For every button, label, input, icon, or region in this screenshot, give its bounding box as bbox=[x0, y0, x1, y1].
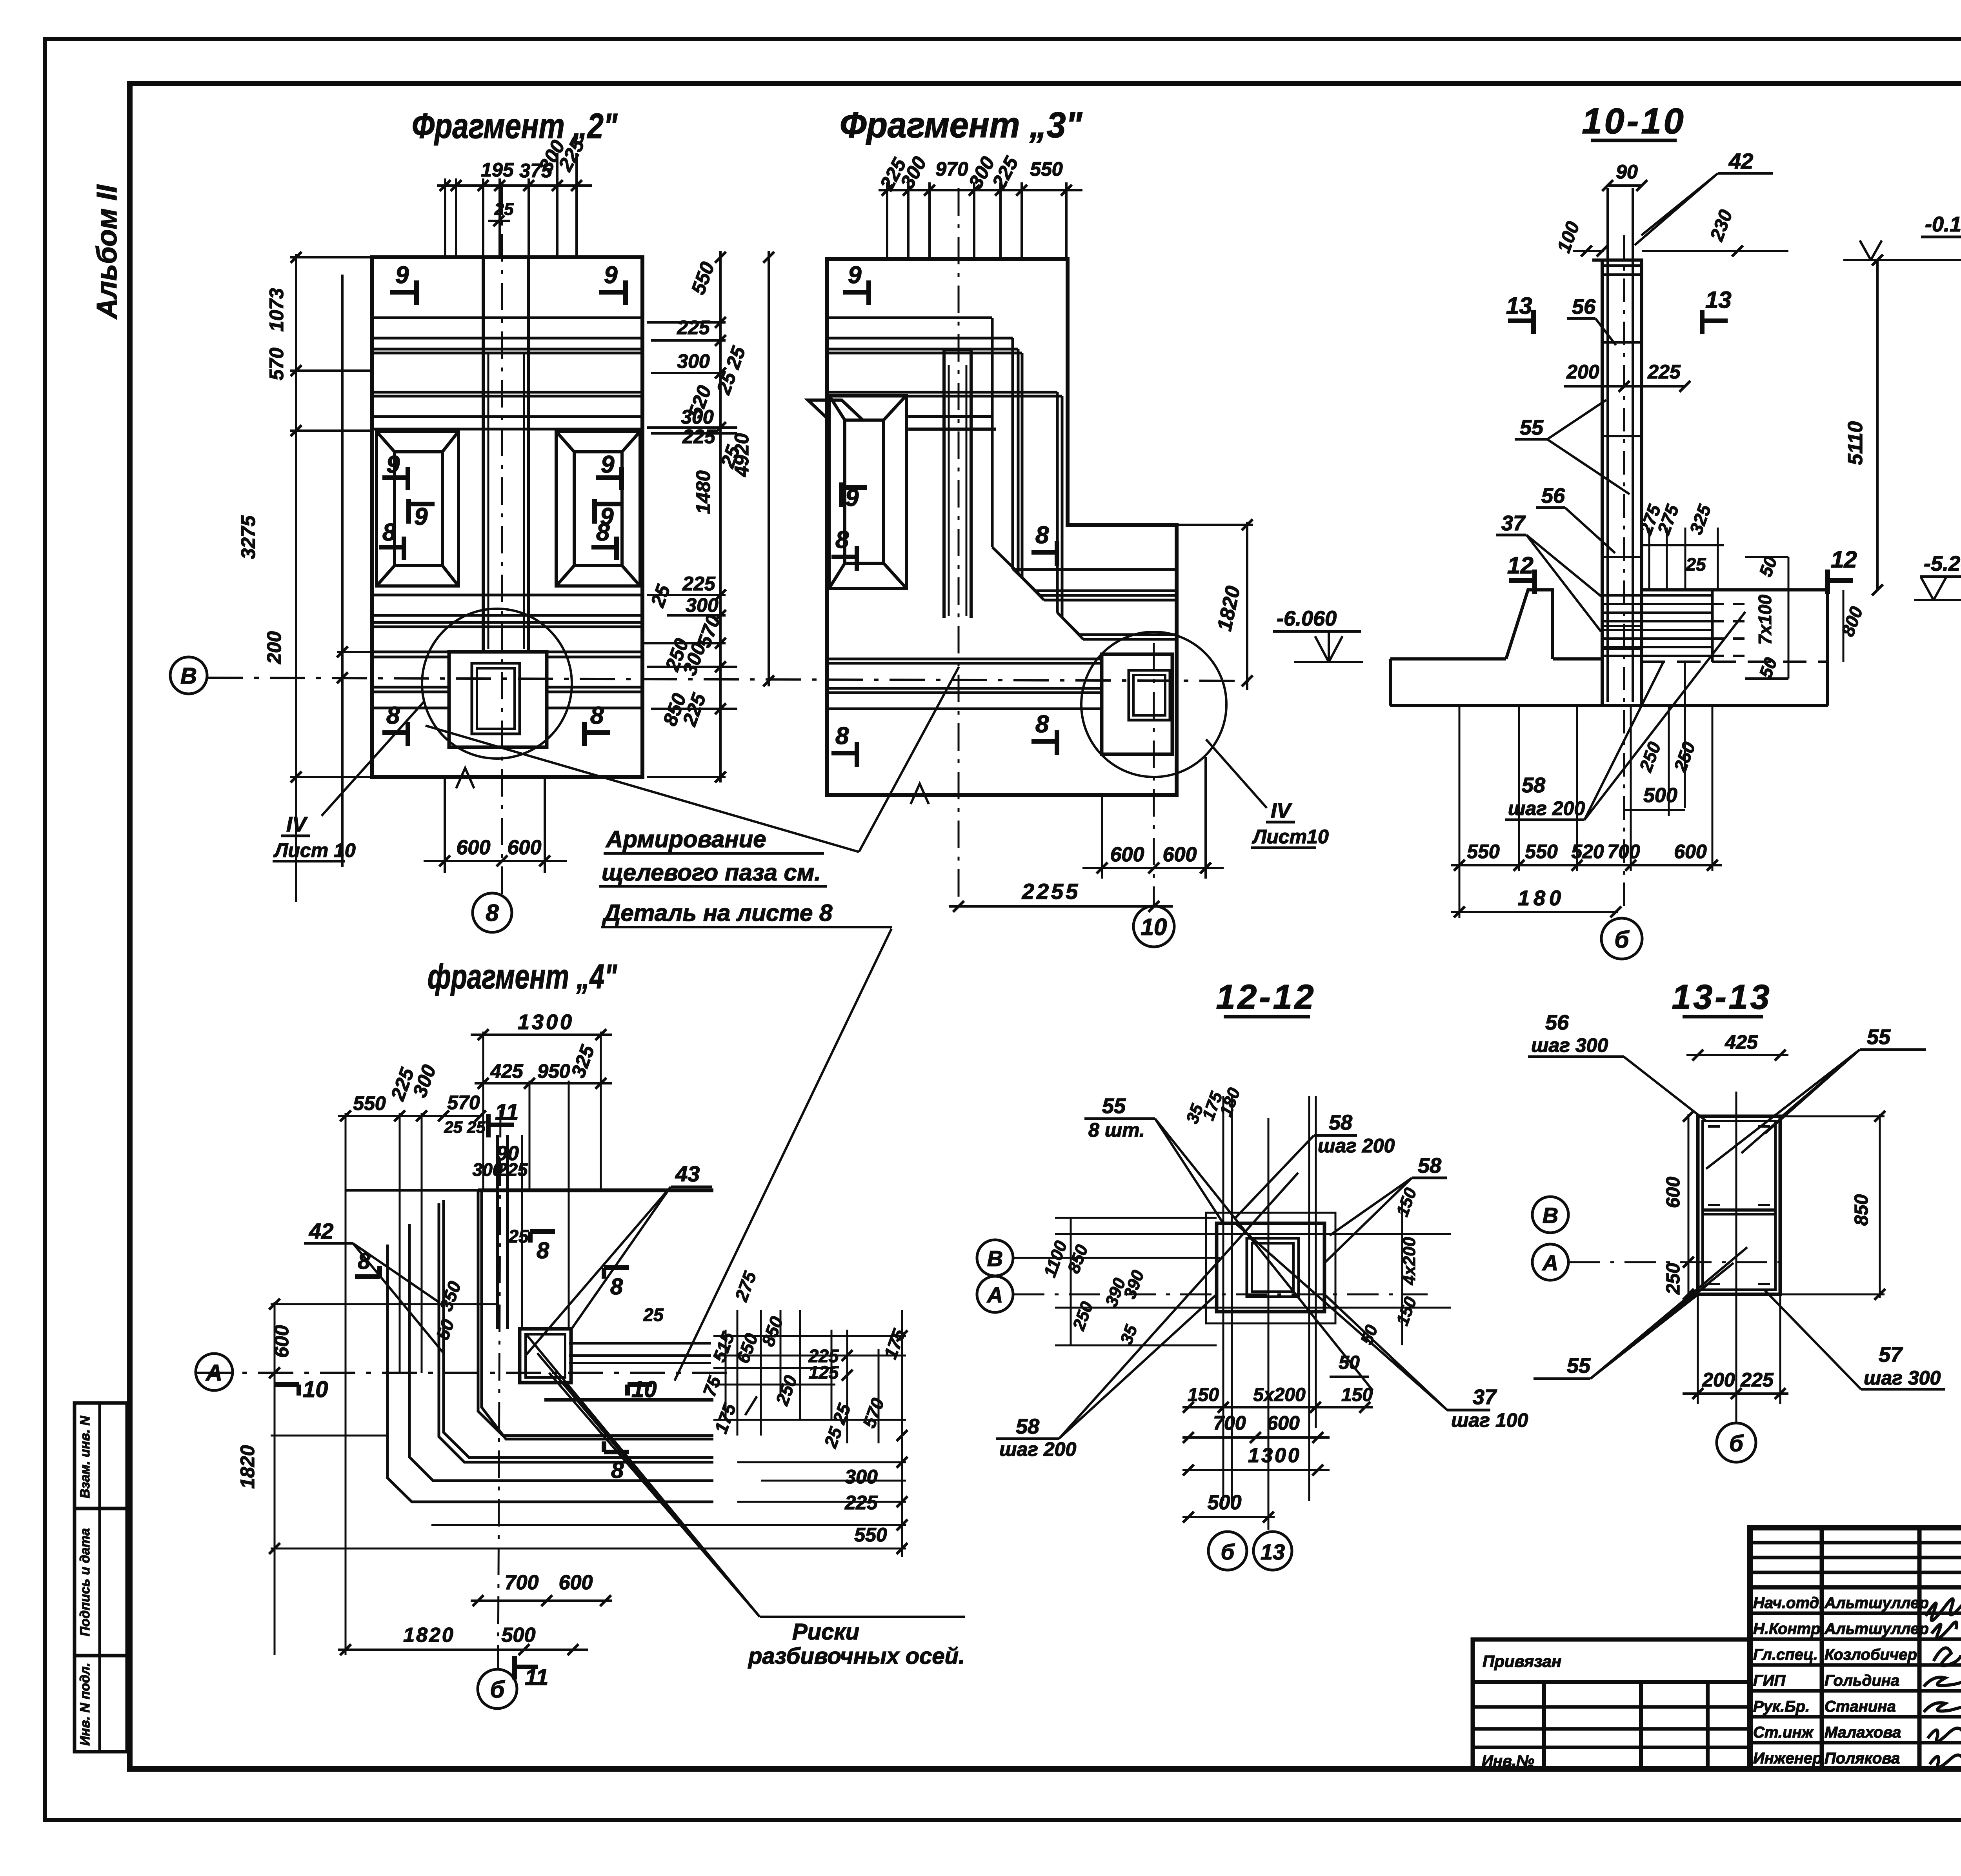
svg-text:12: 12 bbox=[1507, 552, 1534, 579]
top dim 425 950 325 bbox=[490, 1042, 599, 1082]
svg-text:225: 225 bbox=[1740, 1369, 1774, 1391]
svg-text:42: 42 bbox=[1728, 149, 1753, 173]
FRAG4 bbox=[196, 957, 965, 1709]
svg-text:б: б bbox=[490, 1676, 505, 1703]
dimension 2255 bbox=[949, 901, 1173, 912]
bottom 600x600 dimension frag3 bbox=[1082, 757, 1224, 879]
markers 8 bbox=[355, 1232, 629, 1452]
crossing witness horizontals bbox=[1055, 1218, 1451, 1345]
svg-text:шаг 300: шаг 300 bbox=[1864, 1367, 1941, 1389]
svg-text:550: 550 bbox=[1467, 841, 1500, 862]
bottom dim 700 600 bbox=[505, 1571, 593, 1594]
svg-text:шаг 200: шаг 200 bbox=[999, 1438, 1076, 1460]
svg-text:600: 600 bbox=[1267, 1412, 1300, 1434]
svg-text:б: б bbox=[1614, 926, 1630, 953]
svg-text:В: В bbox=[1543, 1203, 1558, 1228]
svg-text:-6.060: -6.060 bbox=[1277, 607, 1337, 630]
riski razbivochnyh osej text bbox=[748, 1619, 965, 1669]
svg-text:12-12: 12-12 bbox=[1216, 977, 1316, 1016]
witness verticals top bbox=[346, 1032, 601, 1655]
wall verticals bbox=[1602, 260, 1642, 706]
svg-text:600: 600 bbox=[508, 836, 542, 859]
svg-text:8: 8 bbox=[386, 702, 400, 729]
svg-text:90: 90 bbox=[1616, 161, 1638, 183]
fragment 4 main outline bbox=[346, 1189, 713, 1192]
svg-text:500: 500 bbox=[1643, 784, 1677, 807]
svg-text:Деталь на листе 8: Деталь на листе 8 bbox=[602, 900, 833, 926]
fragment 2 top dimension chain bbox=[437, 153, 592, 259]
svg-text:10: 10 bbox=[631, 1377, 657, 1402]
detail circle at slot bottom bbox=[422, 609, 572, 759]
SEC1212 bbox=[977, 977, 1528, 1570]
svg-text:37: 37 bbox=[1473, 1385, 1497, 1409]
svg-text:3275: 3275 bbox=[237, 515, 259, 559]
bottom dim chain bbox=[1451, 864, 1722, 866]
svg-text:А: А bbox=[986, 1283, 1003, 1307]
svg-text:разбивочных осей.: разбивочных осей. bbox=[748, 1643, 965, 1669]
fragment 3 L outline bbox=[827, 259, 1177, 795]
right dimension 1820 bbox=[1179, 519, 1253, 690]
svg-text:600: 600 bbox=[1663, 1177, 1684, 1208]
svg-text:Альтшуллер: Альтшуллер bbox=[1824, 1594, 1929, 1612]
signature table columns bbox=[1820, 1528, 1824, 1769]
svg-text:б: б bbox=[1221, 1539, 1235, 1564]
svg-text:1073: 1073 bbox=[266, 288, 287, 331]
svg-text:13: 13 bbox=[1506, 293, 1532, 319]
svg-text:9: 9 bbox=[848, 262, 862, 289]
svg-text:Козлобичер: Козлобичер bbox=[1825, 1646, 1917, 1663]
svg-text:IV: IV bbox=[286, 813, 308, 836]
left recessed box bbox=[377, 431, 458, 586]
svg-text:250: 250 bbox=[1663, 1263, 1684, 1295]
footing witness lines below bbox=[1459, 663, 1712, 918]
FRAG3 bbox=[426, 105, 1363, 1381]
svg-text:Н.Контр.: Н.Контр. bbox=[1753, 1620, 1825, 1638]
markers 13 bbox=[1508, 310, 1728, 334]
TITLEBLOCK bbox=[1473, 1528, 1961, 1853]
svg-text:58: 58 bbox=[1329, 1111, 1352, 1134]
section markers fragment 3 bbox=[831, 280, 1057, 767]
svg-text:10-10: 10-10 bbox=[1582, 101, 1686, 141]
markers 10 bbox=[275, 1385, 652, 1396]
right recessed box bbox=[556, 431, 640, 586]
svg-text:Малахова: Малахова bbox=[1825, 1724, 1901, 1741]
name rows bbox=[1750, 1612, 1961, 1615]
slab step lines top bbox=[372, 318, 642, 429]
svg-text:180: 180 bbox=[1518, 886, 1565, 910]
axis circle 10 bbox=[1133, 906, 1174, 947]
svg-text:Гольдина: Гольдина bbox=[1825, 1672, 1899, 1689]
svg-text:Подпись и дата: Подпись и дата bbox=[78, 1528, 93, 1636]
bottom 600x600 dimension bbox=[424, 779, 567, 873]
svg-text:58: 58 bbox=[1016, 1415, 1039, 1438]
svg-text:425: 425 bbox=[490, 1060, 524, 1082]
svg-text:10: 10 bbox=[1141, 914, 1167, 940]
axis circle B bbox=[170, 657, 207, 694]
svg-text:37: 37 bbox=[1501, 511, 1526, 535]
svg-text:55: 55 bbox=[1102, 1094, 1126, 1118]
SEC1111 bbox=[1843, 101, 1961, 953]
axis circle b bbox=[1717, 1423, 1756, 1462]
svg-text:225: 225 bbox=[682, 426, 716, 448]
dim 200 225 bbox=[1566, 361, 1681, 383]
svg-text:225: 225 bbox=[682, 573, 716, 595]
left dims bbox=[1663, 1177, 1684, 1295]
svg-text:500: 500 bbox=[1208, 1491, 1242, 1514]
nested step contours bbox=[387, 1190, 713, 1502]
svg-text:550: 550 bbox=[854, 1524, 887, 1546]
svg-text:8: 8 bbox=[382, 519, 396, 546]
slab step lines bottom bbox=[372, 595, 642, 708]
svg-text:9: 9 bbox=[604, 262, 618, 289]
signatures squiggles bbox=[1924, 1599, 1961, 1767]
dims 275 275 325 rotated bbox=[1635, 501, 1715, 537]
axis circles B A bbox=[977, 1240, 1013, 1276]
leader IV list10 frag3 bbox=[1206, 739, 1267, 808]
svg-text:1300: 1300 bbox=[518, 1010, 574, 1034]
svg-text:225: 225 bbox=[497, 1159, 528, 1180]
svg-text:550: 550 bbox=[1030, 158, 1063, 180]
leader IV list 10 bbox=[322, 702, 424, 816]
thin top rows bbox=[1750, 1541, 1961, 1545]
svg-text:б: б bbox=[1729, 1431, 1744, 1456]
svg-text:25 25: 25 25 bbox=[444, 1118, 486, 1136]
svg-text:9: 9 bbox=[601, 451, 615, 478]
fragment 2 plan outline bbox=[372, 257, 642, 777]
svg-text:Лист 10: Лист 10 bbox=[273, 839, 356, 861]
left slab step lines bbox=[827, 318, 1177, 639]
svg-text:Альтшуллер: Альтшуллер bbox=[1824, 1620, 1929, 1638]
svg-text:Фрагмент „3": Фрагмент „3" bbox=[840, 105, 1082, 145]
svg-text:8: 8 bbox=[1035, 711, 1049, 738]
central slot bbox=[482, 257, 485, 651]
crossing witness verticals bbox=[1223, 1096, 1316, 1530]
svg-text:8: 8 bbox=[835, 722, 849, 750]
svg-text:600: 600 bbox=[1163, 843, 1197, 866]
svg-text:13-13: 13-13 bbox=[1672, 977, 1772, 1016]
column section rect bbox=[1698, 1116, 1780, 1294]
svg-text:42: 42 bbox=[309, 1219, 333, 1243]
svg-text:Риски: Риски bbox=[792, 1619, 859, 1645]
left top dims 550 225 300 570 bbox=[353, 1062, 480, 1114]
dim 700 600 bbox=[1213, 1412, 1300, 1434]
left stamp strip bbox=[75, 1403, 127, 1752]
svg-text:57: 57 bbox=[1879, 1343, 1903, 1367]
recessed box fragment 3 bbox=[808, 395, 996, 588]
svg-text:550: 550 bbox=[353, 1092, 386, 1114]
svg-text:195: 195 bbox=[481, 159, 514, 181]
svg-text:шаг 200: шаг 200 bbox=[1318, 1135, 1395, 1157]
marker 11 bottom bbox=[515, 1656, 538, 1679]
svg-text:300: 300 bbox=[686, 594, 719, 616]
fragment 2 right dimension chain bbox=[643, 251, 774, 782]
svg-text:55: 55 bbox=[1867, 1025, 1891, 1049]
svg-text:425: 425 bbox=[1725, 1031, 1758, 1053]
stirrups in wall bbox=[1603, 266, 1641, 649]
axis A line bbox=[196, 1372, 737, 1374]
labels 35 175 180 rotated bbox=[1182, 1085, 1244, 1126]
marker 11 top bbox=[488, 1114, 514, 1137]
svg-text:13: 13 bbox=[1261, 1539, 1285, 1564]
svg-text:11: 11 bbox=[525, 1665, 548, 1690]
svg-text:700: 700 bbox=[505, 1571, 539, 1594]
svg-text:570: 570 bbox=[266, 348, 287, 380]
FRAG2 bbox=[170, 107, 1249, 932]
svg-text:Рук.Бр.: Рук.Бр. bbox=[1753, 1698, 1810, 1715]
svg-text:300: 300 bbox=[681, 406, 714, 428]
svg-text:IV: IV bbox=[1271, 799, 1292, 822]
main stamp box bbox=[1750, 1528, 1961, 1769]
svg-text:9: 9 bbox=[386, 451, 400, 478]
svg-text:8: 8 bbox=[611, 1457, 624, 1483]
fragment 2 left dimension chain bbox=[290, 252, 373, 902]
rebar hooks bbox=[1708, 1126, 1770, 1284]
svg-text:850: 850 bbox=[1851, 1194, 1872, 1226]
svg-text:5110: 5110 bbox=[1844, 421, 1867, 465]
svg-text:500: 500 bbox=[502, 1624, 536, 1647]
svg-text:600: 600 bbox=[457, 836, 491, 859]
section markers in boxes bbox=[379, 467, 622, 560]
svg-text:55: 55 bbox=[1567, 1354, 1591, 1377]
small dims near slot bbox=[432, 1159, 529, 1342]
svg-text:9: 9 bbox=[845, 484, 859, 511]
axis B line bbox=[208, 678, 1249, 681]
svg-text:1300: 1300 bbox=[1248, 1444, 1301, 1467]
svg-text:10: 10 bbox=[303, 1377, 328, 1402]
svg-text:56: 56 bbox=[1572, 295, 1596, 318]
svg-text:520: 520 bbox=[1571, 841, 1604, 862]
svg-text:225: 225 bbox=[844, 1492, 878, 1514]
svg-text:12: 12 bbox=[1831, 546, 1857, 573]
svg-text:25: 25 bbox=[1685, 554, 1706, 575]
footing outline bbox=[1390, 590, 1828, 706]
svg-text:56: 56 bbox=[1541, 484, 1565, 508]
reinforcement note text bbox=[602, 826, 833, 926]
svg-text:25: 25 bbox=[494, 200, 514, 219]
svg-text:125: 125 bbox=[809, 1362, 839, 1383]
svg-text:Инв. N подл.: Инв. N подл. bbox=[78, 1663, 93, 1746]
svg-text:-0.150: -0.150 bbox=[1925, 213, 1961, 236]
svg-text:шаг 100: шаг 100 bbox=[1451, 1409, 1528, 1431]
hatch bars in footing bbox=[1602, 590, 1747, 662]
SEC1313 bbox=[1528, 977, 1945, 1462]
center square detail bbox=[520, 1329, 571, 1383]
svg-text:970: 970 bbox=[935, 158, 968, 180]
svg-text:5x200: 5x200 bbox=[1253, 1385, 1306, 1405]
svg-text:200: 200 bbox=[263, 631, 285, 664]
svg-text:шаг 300: шаг 300 bbox=[1531, 1034, 1608, 1056]
svg-text:фрагмент „4": фрагмент „4" bbox=[427, 957, 617, 996]
svg-text:В: В bbox=[180, 663, 197, 689]
axis circle 8 bottom bbox=[473, 893, 512, 932]
leader lines to slots bbox=[426, 726, 859, 852]
svg-text:8: 8 bbox=[590, 702, 604, 729]
svg-text:Привязан: Привязан bbox=[1483, 1652, 1561, 1670]
svg-text:225: 225 bbox=[1647, 361, 1681, 383]
bottom dim 200 225 bbox=[1702, 1369, 1774, 1391]
axis circles B A bbox=[1532, 1197, 1568, 1233]
section markers 8 bottom bbox=[382, 722, 610, 746]
svg-text:-5.260: -5.260 bbox=[1924, 552, 1961, 575]
svg-text:Инженер: Инженер bbox=[1753, 1750, 1822, 1767]
svg-text:600: 600 bbox=[1674, 841, 1707, 862]
svg-text:225: 225 bbox=[677, 317, 710, 338]
svg-text:43: 43 bbox=[675, 1161, 700, 1186]
svg-text:щелевого паза см.: щелевого паза см. bbox=[602, 859, 821, 886]
left chain bbox=[271, 1302, 906, 1655]
detail circle at arm end bbox=[1081, 632, 1226, 777]
svg-text:11: 11 bbox=[495, 1099, 518, 1125]
right witness lines bbox=[431, 1310, 906, 1557]
fan leaders to Riski bbox=[526, 1334, 965, 1617]
svg-text:300: 300 bbox=[845, 1466, 878, 1488]
svg-text:55: 55 bbox=[1520, 416, 1544, 439]
svg-text:Армирование: Армирование bbox=[605, 826, 766, 852]
svg-text:8: 8 bbox=[358, 1248, 371, 1274]
svg-text:8 шт.: 8 шт. bbox=[1088, 1119, 1145, 1141]
svg-text:600: 600 bbox=[1110, 843, 1144, 866]
svg-text:1480: 1480 bbox=[692, 470, 714, 514]
svg-text:600: 600 bbox=[559, 1571, 593, 1594]
privyazan table bbox=[1473, 1639, 1750, 1769]
left rotated dims bbox=[1040, 1238, 1148, 1347]
svg-text:8: 8 bbox=[486, 900, 499, 926]
break mark fragment 3 bbox=[911, 784, 929, 804]
svg-text:25: 25 bbox=[508, 1226, 529, 1246]
markers 12 bbox=[1509, 570, 1853, 594]
svg-text:8: 8 bbox=[610, 1274, 623, 1299]
svg-text:58: 58 bbox=[1418, 1154, 1441, 1177]
svg-text:700: 700 bbox=[1607, 841, 1640, 862]
svg-text:шаг 200: шаг 200 bbox=[1508, 797, 1585, 819]
section markers 9 top bbox=[390, 280, 626, 305]
svg-text:9: 9 bbox=[395, 262, 409, 289]
svg-text:200: 200 bbox=[1566, 361, 1599, 383]
dims 50 7x100 50 800 right bbox=[1755, 553, 1867, 681]
svg-text:А: А bbox=[1542, 1250, 1558, 1275]
svg-text:8: 8 bbox=[537, 1238, 549, 1263]
svg-text:Ст.инж: Ст.инж bbox=[1753, 1724, 1814, 1741]
svg-text:13: 13 bbox=[1705, 287, 1732, 313]
svg-text:700: 700 bbox=[1213, 1412, 1246, 1434]
svg-text:8: 8 bbox=[1035, 522, 1049, 549]
svg-text:А: А bbox=[205, 1360, 222, 1386]
svg-text:25: 25 bbox=[643, 1305, 664, 1325]
signature labels bbox=[1753, 1594, 1929, 1767]
svg-text:Гл.спец.: Гл.спец. bbox=[1753, 1646, 1818, 1663]
svg-text:Альбом II: Альбом II bbox=[91, 184, 123, 319]
svg-text:50: 50 bbox=[1339, 1352, 1360, 1373]
bottom dim 150 5x200 150 bbox=[1188, 1385, 1373, 1405]
svg-text:2255: 2255 bbox=[1022, 879, 1081, 904]
axis band lines bbox=[827, 659, 1102, 709]
axis circle b bbox=[1601, 918, 1642, 959]
svg-text:В: В bbox=[987, 1246, 1003, 1271]
right dim cluster rotated labels bbox=[643, 1268, 910, 1450]
slot of fragment 3 bbox=[942, 350, 946, 618]
svg-text:8: 8 bbox=[596, 519, 610, 546]
bottom dim 1820 500 bbox=[403, 1624, 535, 1647]
svg-text:200: 200 bbox=[1702, 1369, 1735, 1391]
center vertical bbox=[1735, 1092, 1737, 1423]
svg-text:1820: 1820 bbox=[236, 1445, 258, 1488]
svg-text:Полякова: Полякова bbox=[1825, 1750, 1900, 1767]
slot verticals bbox=[496, 1135, 499, 1329]
axis circle b frag4 bbox=[478, 1669, 517, 1709]
right rotated dims bbox=[1357, 1185, 1421, 1347]
svg-text:ГИП: ГИП bbox=[1753, 1672, 1786, 1689]
svg-text:56: 56 bbox=[1545, 1011, 1569, 1034]
svg-text:1820: 1820 bbox=[403, 1624, 455, 1647]
axis circles b 13 bbox=[1208, 1532, 1247, 1570]
fragment 3 top dimension chain bbox=[879, 182, 1082, 259]
svg-text:Фрагмент „2": Фрагмент „2" bbox=[412, 107, 618, 146]
svg-text:550: 550 bbox=[1525, 841, 1558, 862]
svg-text:9: 9 bbox=[414, 503, 428, 530]
svg-text:600: 600 bbox=[271, 1325, 293, 1358]
svg-text:7x100: 7x100 bbox=[1755, 595, 1775, 645]
break mark bottom edge bbox=[456, 768, 474, 788]
svg-text:4920: 4920 bbox=[731, 433, 753, 477]
svg-text:Станина: Станина bbox=[1825, 1698, 1896, 1715]
svg-text:Нач.отд.: Нач.отд. bbox=[1753, 1594, 1823, 1612]
interior lines right of square bbox=[569, 1343, 711, 1363]
svg-text:570: 570 bbox=[447, 1092, 480, 1114]
detail: slot ring section bbox=[1206, 1213, 1335, 1323]
svg-text:Инв.№: Инв.№ bbox=[1482, 1752, 1534, 1770]
SEC1010 bbox=[1390, 101, 1883, 959]
svg-text:300: 300 bbox=[677, 350, 710, 372]
svg-text:8: 8 bbox=[835, 526, 849, 553]
dims 250 250 bbox=[1635, 739, 1699, 775]
svg-text:Лист10: Лист10 bbox=[1252, 826, 1329, 848]
svg-text:Взам. инв. N: Взам. инв. N bbox=[78, 1415, 93, 1498]
svg-text:950: 950 bbox=[537, 1060, 570, 1082]
svg-text:58: 58 bbox=[1522, 773, 1545, 797]
